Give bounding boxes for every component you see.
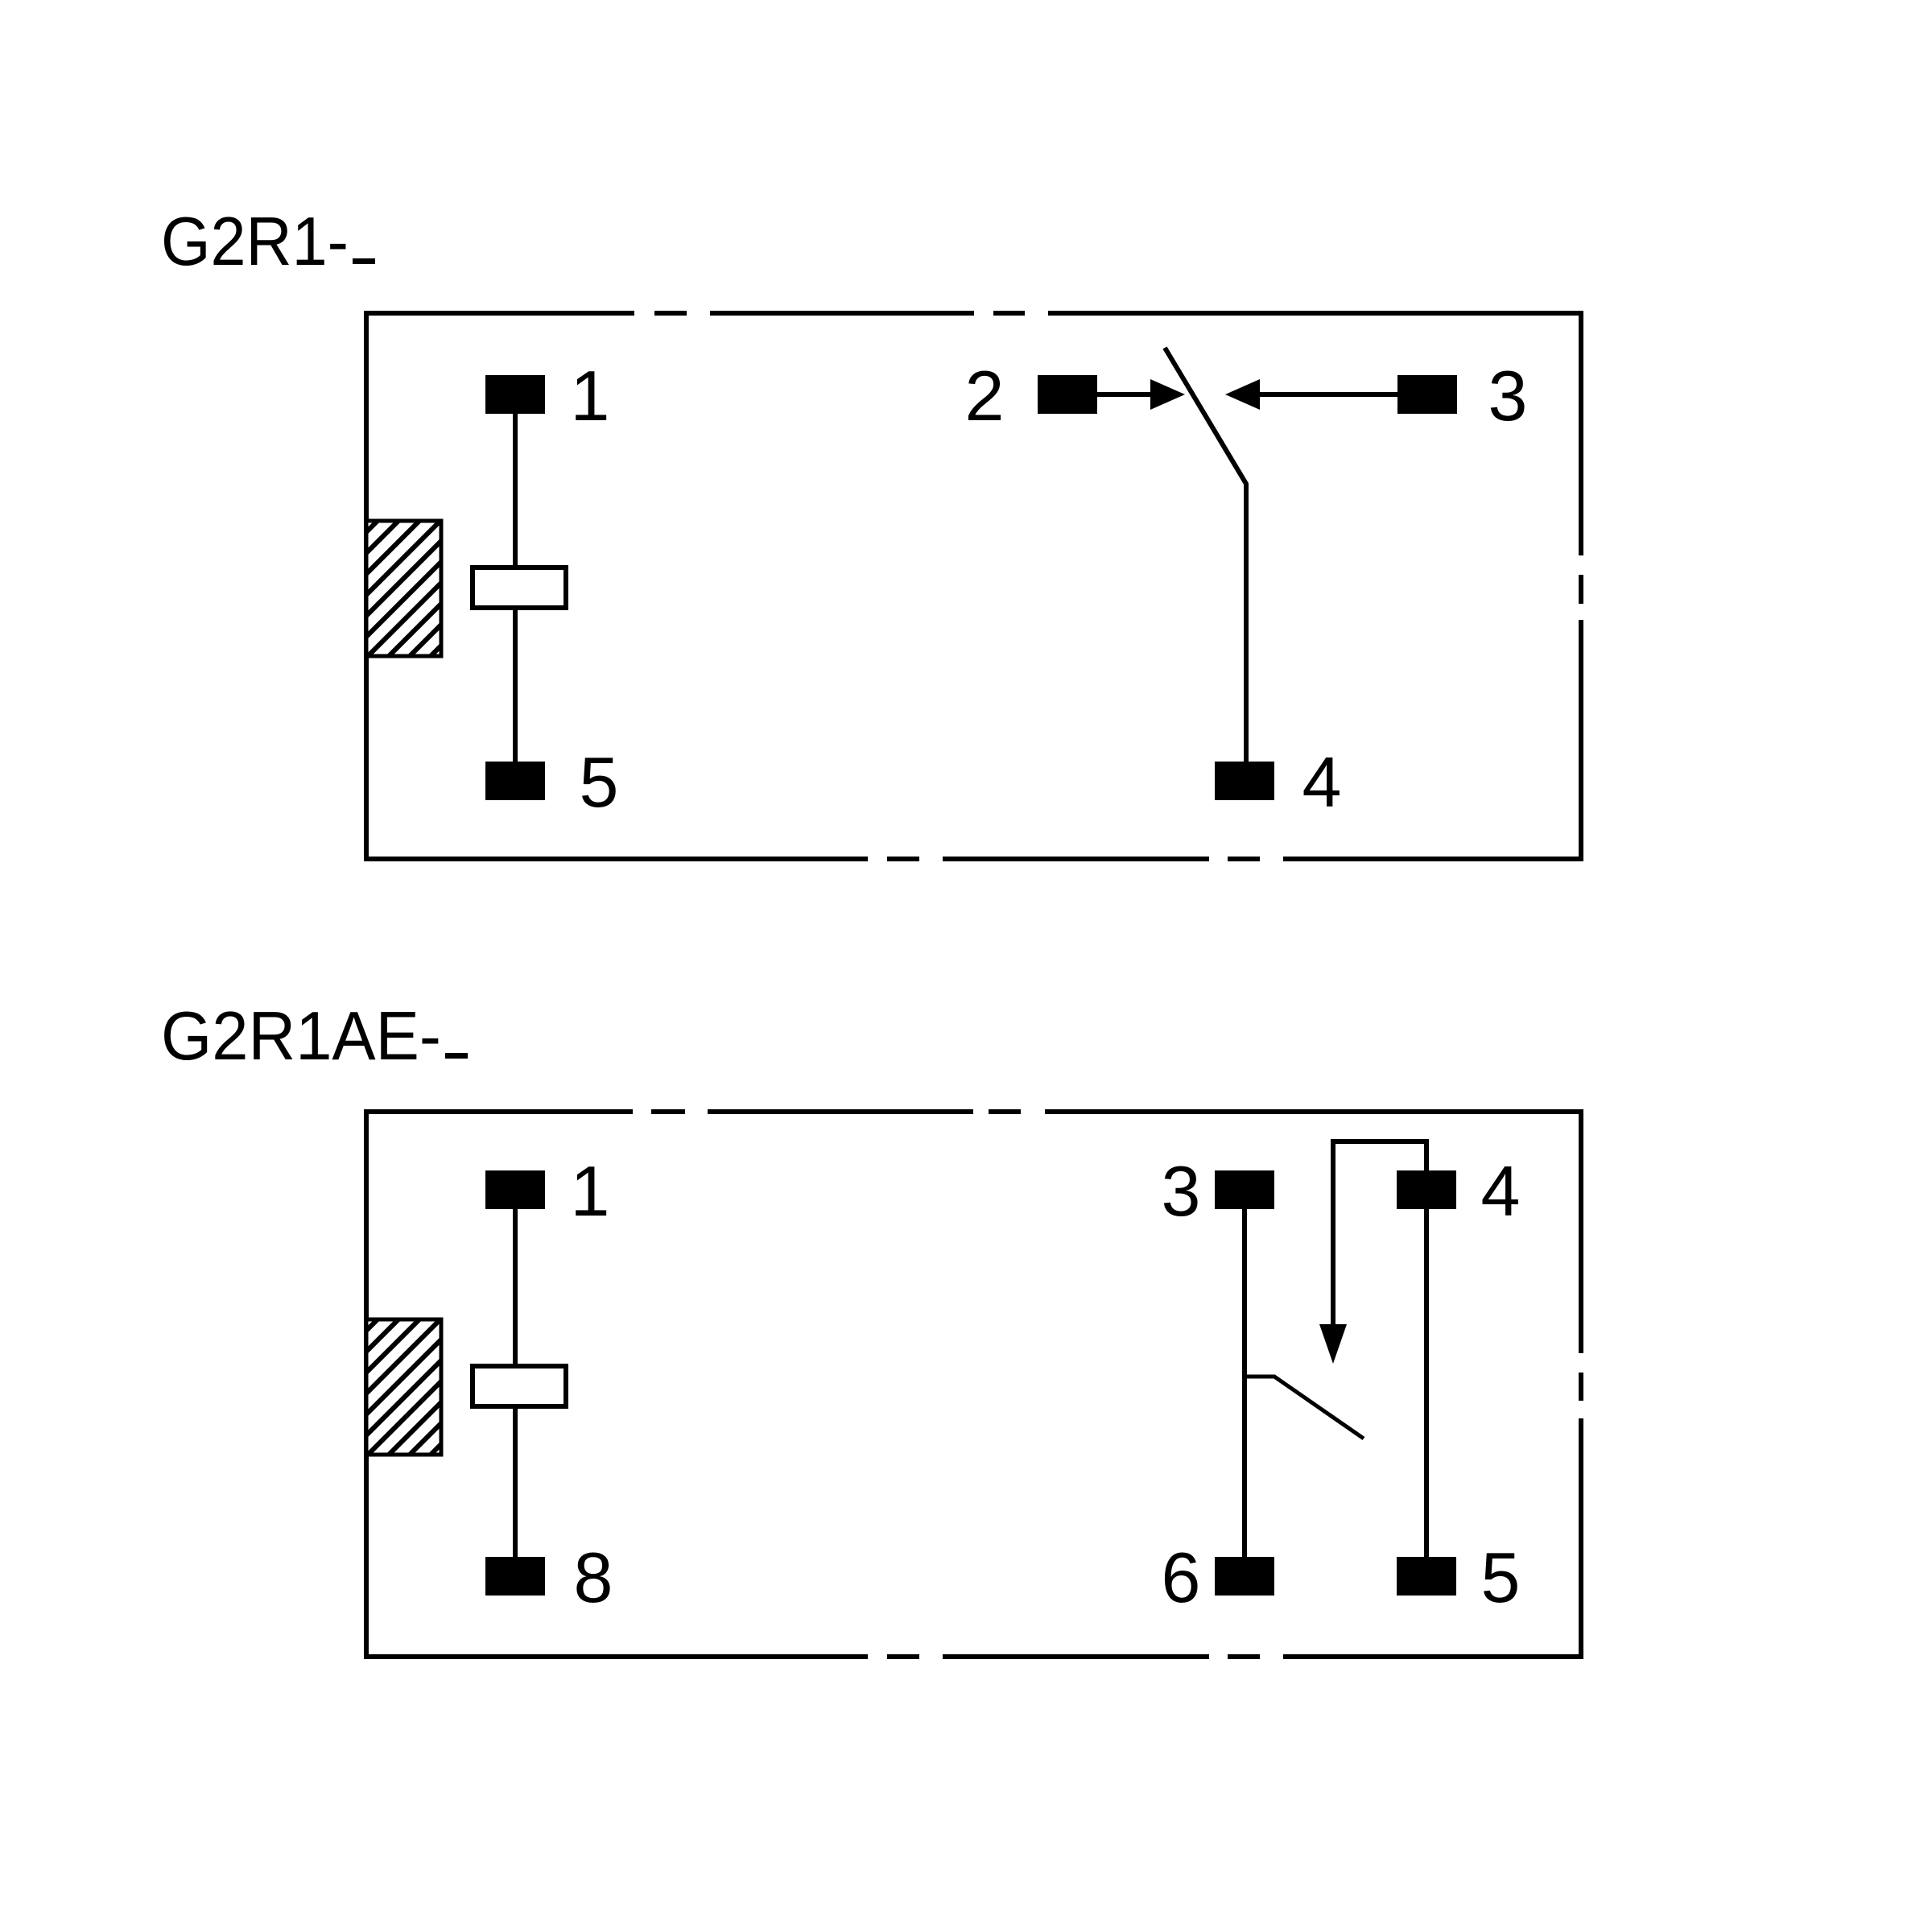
svg-text:4: 4 — [1302, 742, 1342, 822]
pin 1 terminal box 1 — [485, 375, 545, 414]
pin 3 terminal box 1 — [1397, 375, 1457, 414]
arrowhead right (pin 2 contact) — [1150, 379, 1185, 410]
title underscore — [445, 1053, 468, 1059]
pin 5 terminal box 1 — [485, 762, 545, 800]
relay outline box 1 (dashed case border) — [364, 311, 1583, 861]
wire pin 4 to pin 5 — [1424, 1209, 1429, 1557]
pin 2 terminal box 1 — [1038, 375, 1097, 414]
svg-text:8: 8 — [574, 1538, 613, 1617]
pin 6 terminal box 2 — [1215, 1557, 1274, 1596]
wire pin 3 to pin 6 (fixed contact) — [1242, 1209, 1247, 1557]
pin 8 terminal box 2 — [485, 1557, 545, 1596]
coil core (hatched) box 1 — [206, 483, 604, 692]
coil wire upper box 2 — [513, 1209, 518, 1364]
svg-text:1: 1 — [571, 356, 610, 436]
switch blade (common) box 1 — [1165, 348, 1246, 762]
switch blade (NO contact) box 2 — [1245, 1377, 1364, 1439]
wire pin 3 to contact — [1259, 392, 1397, 397]
relay outline box 2 (dashed case border) — [364, 1109, 1583, 1659]
arrowhead down (actuator) — [1319, 1324, 1347, 1364]
coil body box 2 — [473, 1366, 566, 1406]
arrowhead left (pin 3 contact) — [1225, 379, 1260, 410]
coil wire lower box 1 — [513, 610, 518, 762]
pin 5 terminal box 2 — [1397, 1557, 1456, 1596]
pin 1 terminal box 2 — [485, 1170, 545, 1209]
svg-text:1: 1 — [571, 1151, 610, 1231]
svg-text:5: 5 — [580, 742, 619, 822]
svg-text:5: 5 — [1481, 1538, 1521, 1617]
svg-text:G2R1-: G2R1- — [161, 204, 349, 280]
coil core (hatched) box 2 — [206, 1282, 604, 1491]
svg-text:6: 6 — [1162, 1538, 1201, 1617]
svg-text:4: 4 — [1481, 1151, 1521, 1231]
actuator wire from pin 4 — [1333, 1141, 1426, 1324]
svg-text:3: 3 — [1488, 356, 1528, 436]
svg-text:3: 3 — [1162, 1151, 1201, 1231]
pin 4 terminal box 2 — [1397, 1170, 1456, 1209]
coil body box 1 — [473, 568, 566, 608]
coil wire lower box 2 — [513, 1409, 518, 1557]
svg-text:G2R1AE-: G2R1AE- — [161, 998, 441, 1075]
title underscore — [353, 258, 375, 264]
coil wire upper box 1 — [513, 414, 518, 565]
pin 4 terminal box 1 — [1215, 762, 1274, 800]
svg-text:2: 2 — [965, 356, 1005, 436]
pin 3 terminal box 2 — [1215, 1170, 1274, 1209]
wire pin 2 to contact — [1097, 392, 1153, 397]
